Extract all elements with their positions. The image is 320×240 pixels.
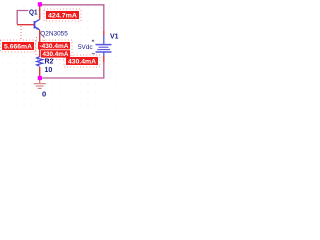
svg-text:430.4mA: 430.4mA xyxy=(68,58,96,65)
svg-text:R2: R2 xyxy=(45,59,54,66)
svg-text:430.4mA: 430.4mA xyxy=(43,51,69,58)
svg-text:Q1: Q1 xyxy=(29,10,38,17)
svg-text:424.7mA: 424.7mA xyxy=(48,12,77,19)
svg-text:Q2N3055: Q2N3055 xyxy=(40,31,68,38)
svg-text:0: 0 xyxy=(42,89,46,98)
svg-text:-430.4mA: -430.4mA xyxy=(40,43,69,50)
svg-text:10: 10 xyxy=(45,67,53,74)
svg-text:5.666mA: 5.666mA xyxy=(4,43,32,50)
svg-text:V1: V1 xyxy=(110,34,119,41)
svg-text:5Vdc: 5Vdc xyxy=(78,44,93,51)
